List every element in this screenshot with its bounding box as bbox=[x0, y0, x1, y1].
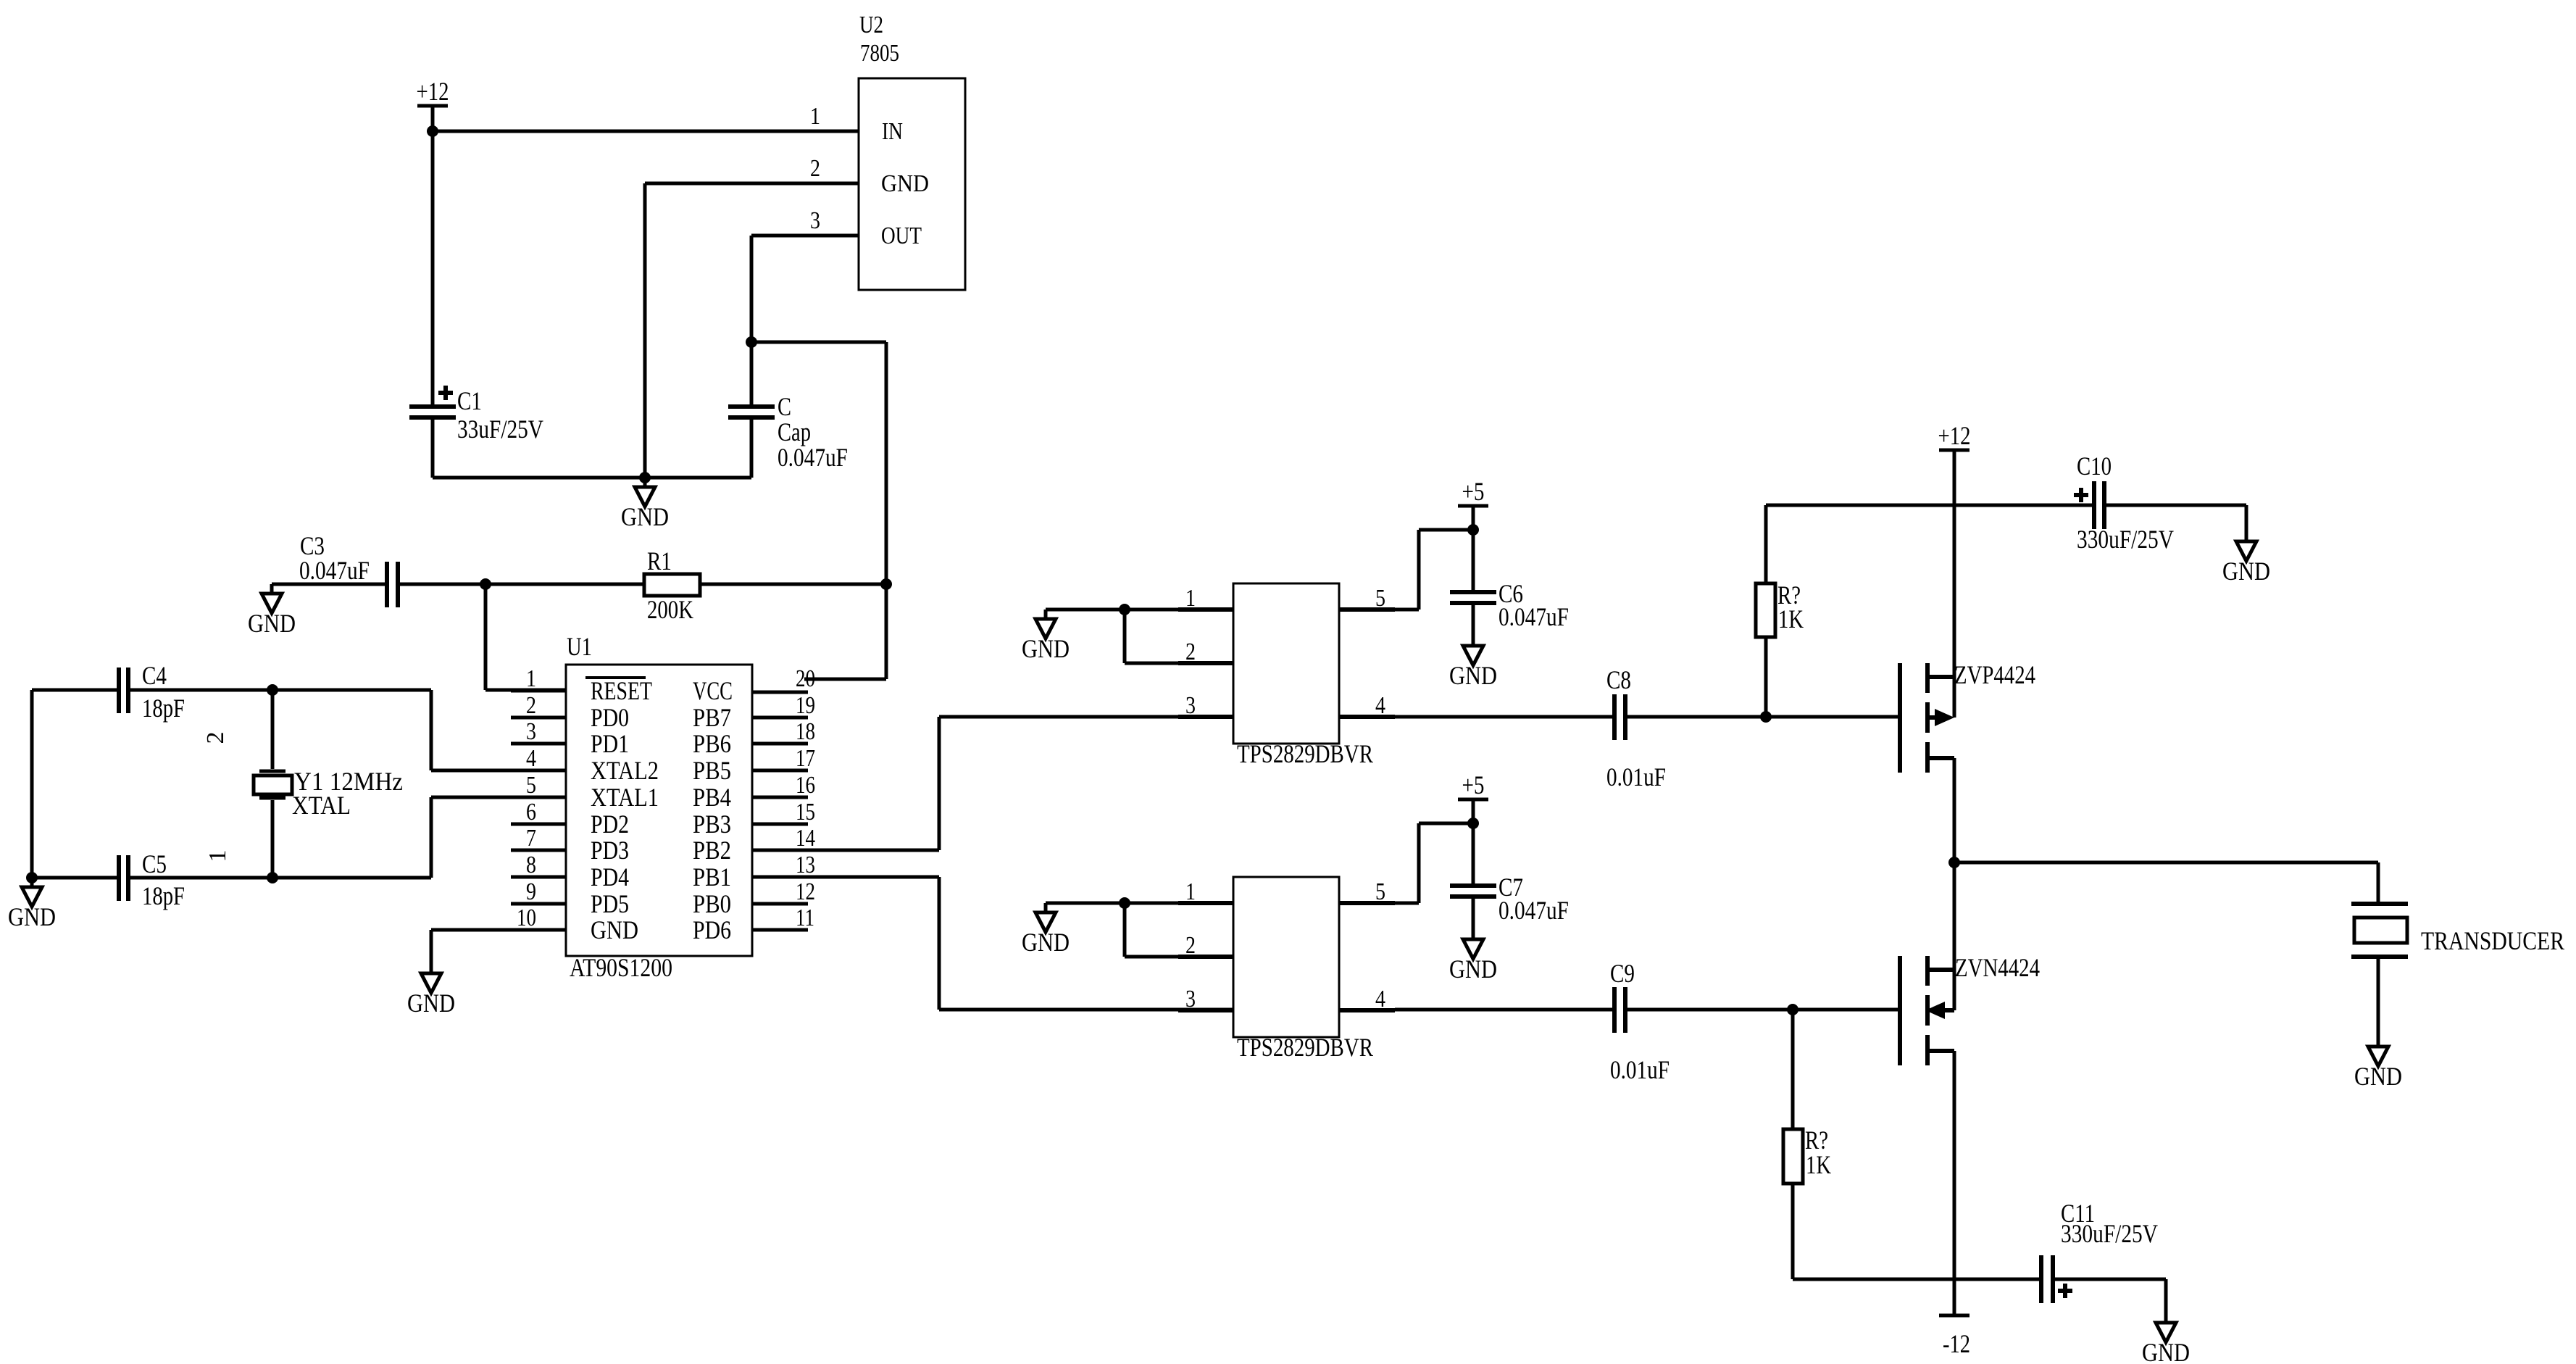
capacitor C bbox=[728, 407, 775, 417]
value 0.01uF bbox=[1610, 1055, 1670, 1084]
value 330uF/25V bbox=[2077, 525, 2174, 554]
pin 4 stub of U1 bbox=[511, 769, 566, 773]
svg-text:2: 2 bbox=[810, 155, 820, 182]
wire bbox=[431, 106, 435, 131]
svg-text:2: 2 bbox=[1185, 639, 1196, 665]
ground symbol C6 bbox=[1449, 636, 1497, 690]
svg-text:+5: +5 bbox=[1462, 477, 1485, 506]
svg-text:18pF: 18pF bbox=[142, 881, 185, 910]
svg-text:RESET: RESET bbox=[591, 676, 652, 705]
svg-text:+12: +12 bbox=[417, 77, 449, 106]
svg-text:ZVN4424: ZVN4424 bbox=[1955, 953, 2040, 982]
pin 19 stub of U1 bbox=[752, 716, 808, 720]
ground symbol C7 bbox=[1449, 930, 1497, 984]
svg-text:GND: GND bbox=[1022, 634, 1070, 663]
pin number 4 bbox=[526, 745, 536, 772]
svg-text:GND: GND bbox=[2354, 1062, 2402, 1091]
transistor Q2 drain conn bbox=[1927, 968, 1954, 972]
pin number 2 bbox=[526, 692, 536, 719]
pin number 2 of Y1 bbox=[202, 732, 229, 744]
wire bbox=[433, 130, 859, 133]
pin 2 stub bbox=[1178, 661, 1233, 665]
svg-text:14: 14 bbox=[796, 825, 815, 852]
pin name PD1 bbox=[591, 729, 629, 758]
transistor Q1 source conn bbox=[1927, 675, 1954, 679]
pin 1 stub of U1 bbox=[511, 689, 566, 693]
svg-text:9: 9 bbox=[526, 878, 536, 905]
svg-text:0.047uF: 0.047uF bbox=[299, 556, 370, 585]
svg-text:5: 5 bbox=[526, 772, 536, 799]
wire bbox=[272, 583, 385, 586]
pin number 5 bbox=[1375, 878, 1385, 905]
capacitor C5 bbox=[119, 855, 128, 901]
resistor R1 bbox=[644, 574, 700, 596]
pin number 5 bbox=[526, 772, 536, 799]
svg-text:18pF: 18pF bbox=[142, 694, 185, 723]
pin name IN bbox=[882, 118, 903, 145]
wire bbox=[1954, 862, 2378, 902]
driver U3 box bbox=[1233, 583, 1339, 744]
svg-text:4: 4 bbox=[1375, 986, 1385, 1012]
pin 11 stub of U1 bbox=[752, 928, 808, 932]
pin name PB2 bbox=[693, 836, 731, 865]
mcu U1 box bbox=[566, 665, 752, 956]
svg-text:3: 3 bbox=[810, 207, 820, 234]
svg-text:2: 2 bbox=[202, 732, 229, 744]
pin name PD5 bbox=[591, 889, 629, 918]
svg-text:16: 16 bbox=[796, 772, 815, 799]
svg-text:VCC: VCC bbox=[693, 676, 733, 705]
pin name GND bbox=[591, 915, 638, 944]
pin number 1 bbox=[1185, 878, 1196, 905]
pin name PB1 bbox=[693, 862, 731, 891]
svg-text:+5: +5 bbox=[1462, 770, 1485, 799]
svg-text:33uF/25V: 33uF/25V bbox=[457, 415, 543, 444]
svg-text:7: 7 bbox=[526, 825, 536, 852]
transistor Q1 drain conn bbox=[1927, 756, 1954, 760]
wire bbox=[1627, 715, 1898, 719]
svg-text:7805: 7805 bbox=[860, 40, 899, 67]
wire bbox=[32, 689, 117, 692]
pin name VCC bbox=[693, 676, 733, 705]
svg-text:PD1: PD1 bbox=[591, 729, 629, 758]
pin 7 stub of U1 bbox=[511, 849, 566, 852]
label TPS2829DBVR bbox=[1237, 1033, 1373, 1062]
wire bbox=[750, 342, 754, 404]
svg-text:2: 2 bbox=[526, 692, 536, 719]
svg-text:GND: GND bbox=[407, 989, 455, 1018]
wire bbox=[1766, 504, 2092, 507]
pin 15 stub of U1 bbox=[752, 823, 808, 826]
pin 17 stub of U1 bbox=[752, 769, 808, 773]
svg-text:GND: GND bbox=[591, 915, 638, 944]
svg-text:5: 5 bbox=[1375, 585, 1385, 612]
wire bbox=[1953, 1051, 1956, 1315]
svg-text:0.047uF: 0.047uF bbox=[778, 443, 848, 472]
svg-text:C5: C5 bbox=[142, 849, 167, 878]
wire bbox=[751, 342, 886, 584]
label C8 bbox=[1606, 665, 1631, 694]
transistor Q1 channel bbox=[1925, 663, 1930, 773]
ground symbol crystal bbox=[8, 878, 56, 931]
svg-text:GND: GND bbox=[8, 902, 56, 931]
pin 5 stub bbox=[1339, 901, 1395, 905]
svg-text:PB6: PB6 bbox=[693, 729, 731, 758]
power +12 rail B bbox=[1938, 421, 1971, 450]
pin 18 stub of U1 bbox=[752, 742, 808, 746]
svg-text:GND: GND bbox=[621, 502, 669, 531]
pin number 1 of Y1 bbox=[204, 850, 231, 862]
pin name OUT bbox=[881, 223, 922, 249]
capacitor C9 bbox=[1614, 987, 1625, 1033]
wire bbox=[751, 236, 859, 342]
svg-text:1: 1 bbox=[1185, 878, 1196, 905]
label R? bbox=[1805, 1126, 1828, 1155]
wire bbox=[1953, 862, 1956, 1010]
power +5 rail A bbox=[1458, 477, 1488, 506]
wire bbox=[431, 930, 511, 964]
svg-text:AT90S1200: AT90S1200 bbox=[570, 953, 672, 982]
ground symbol transducer bbox=[2354, 1037, 2402, 1091]
svg-text:0.01uF: 0.01uF bbox=[1610, 1055, 1670, 1084]
pin number 1 bbox=[526, 665, 536, 692]
wire bbox=[2055, 1279, 2166, 1313]
pin name XTAL1 bbox=[591, 783, 659, 812]
svg-text:U2: U2 bbox=[859, 12, 883, 38]
pin 5 stub of U1 bbox=[511, 796, 566, 799]
value 330uF/25V bbox=[2061, 1219, 2158, 1248]
transistor Q1 body arrow bbox=[1927, 709, 1954, 726]
svg-text:1: 1 bbox=[526, 665, 536, 692]
pin number 2 of U2 bbox=[810, 155, 820, 182]
svg-text:C4: C4 bbox=[142, 661, 167, 690]
junction crystal top bbox=[267, 684, 278, 696]
pin 1 stub bbox=[1178, 607, 1233, 612]
transducer bbox=[2351, 904, 2408, 957]
svg-text:3: 3 bbox=[1185, 692, 1196, 719]
value 0.01uF bbox=[1606, 762, 1666, 791]
svg-text:TPS2829DBVR: TPS2829DBVR bbox=[1237, 1033, 1373, 1062]
pin name RESET bbox=[591, 676, 652, 705]
wire bbox=[272, 797, 511, 878]
power +12 rail A bbox=[417, 77, 449, 106]
svg-text:PD4: PD4 bbox=[591, 862, 629, 891]
label U2 bbox=[859, 12, 883, 38]
pin number 3 bbox=[1185, 692, 1196, 719]
svg-text:PD2: PD2 bbox=[591, 810, 629, 839]
pin 4 stub bbox=[1339, 715, 1395, 719]
capacitor C3 bbox=[387, 562, 398, 607]
value 33uF/25V bbox=[457, 415, 543, 444]
svg-text:0.047uF: 0.047uF bbox=[1499, 896, 1569, 925]
pin number 4 bbox=[1375, 986, 1385, 1012]
transistor Q2 ZVN4424 gate bar bbox=[1898, 956, 1902, 1065]
svg-text:330uF/25V: 330uF/25V bbox=[2061, 1219, 2158, 1248]
pin number 15 bbox=[796, 799, 815, 826]
capacitor C10 bbox=[2094, 481, 2104, 529]
svg-text:1: 1 bbox=[204, 850, 231, 862]
driver U4 box bbox=[1233, 877, 1339, 1037]
pin name PD6 bbox=[693, 915, 731, 944]
pin name PB6 bbox=[693, 729, 731, 758]
label ZVN4424 bbox=[1955, 953, 2040, 982]
svg-text:OUT: OUT bbox=[881, 223, 922, 249]
junction +5/C7 bbox=[1467, 818, 1479, 829]
RESET overline bbox=[585, 676, 646, 679]
junction R1/VCC bbox=[880, 578, 892, 590]
junction +12/C1 bbox=[427, 125, 438, 137]
capacitor C8 bbox=[1614, 694, 1625, 740]
svg-text:R1: R1 bbox=[647, 546, 672, 575]
wire bbox=[1472, 899, 1475, 930]
wire bbox=[804, 584, 886, 679]
resistor R? upper bbox=[1756, 583, 1775, 637]
wire bbox=[431, 131, 435, 404]
svg-text:U1: U1 bbox=[567, 632, 592, 661]
wire bbox=[130, 876, 272, 880]
label C4 bbox=[142, 661, 167, 690]
svg-text:4: 4 bbox=[526, 745, 536, 772]
value 0.047uF bbox=[1499, 602, 1569, 631]
junction crystal bottom bbox=[267, 872, 278, 883]
wire bbox=[1125, 903, 1178, 957]
label C7 bbox=[1499, 873, 1523, 902]
capacitor C4 bbox=[119, 668, 128, 713]
label C5 bbox=[142, 849, 167, 878]
wire bbox=[30, 690, 34, 878]
pin number 6 bbox=[526, 799, 536, 826]
wire bbox=[1791, 1184, 1795, 1279]
svg-text:17: 17 bbox=[796, 745, 815, 772]
wire bbox=[1472, 799, 1475, 823]
svg-text:GND: GND bbox=[1022, 928, 1070, 957]
junction pin1/pin2 bbox=[1119, 604, 1130, 615]
svg-text:C: C bbox=[778, 392, 791, 421]
svg-text:18: 18 bbox=[796, 718, 815, 745]
wire bbox=[485, 583, 644, 586]
label R? bbox=[1777, 581, 1801, 610]
ground symbol C3 bbox=[248, 584, 296, 638]
pin number 10 bbox=[517, 905, 536, 931]
pin number 5 bbox=[1375, 585, 1385, 612]
wire bbox=[130, 689, 272, 692]
wire bbox=[32, 876, 117, 880]
pin 10 stub of U1 bbox=[511, 928, 566, 932]
svg-text:PB2: PB2 bbox=[693, 836, 731, 865]
label Y1 12MHz bbox=[294, 767, 403, 796]
wire bbox=[431, 420, 435, 478]
pin 1 stub bbox=[1178, 901, 1233, 905]
wire bbox=[1764, 637, 1768, 717]
pin 12 stub of U1 bbox=[752, 902, 808, 906]
svg-text:GND: GND bbox=[881, 170, 929, 197]
label C6 bbox=[1499, 579, 1523, 608]
svg-text:GND: GND bbox=[1449, 955, 1497, 984]
transistor Q2 source conn bbox=[1927, 1049, 1954, 1053]
capacitor C7 bbox=[1450, 886, 1496, 897]
pin 16 stub of U1 bbox=[752, 796, 808, 799]
wire PB2 to driver 1 bbox=[752, 717, 1233, 850]
pin number 7 bbox=[526, 825, 536, 852]
pin 3 stub of U1 bbox=[511, 742, 566, 746]
pin number 3 bbox=[526, 718, 536, 745]
junction +5/C6 bbox=[1467, 524, 1479, 536]
pin 6 stub of U1 bbox=[511, 823, 566, 826]
svg-text:19: 19 bbox=[796, 692, 815, 719]
svg-text:XTAL2: XTAL2 bbox=[591, 756, 659, 785]
wire bbox=[1395, 530, 1473, 610]
pin name PB5 bbox=[693, 756, 731, 785]
label C3 bbox=[300, 531, 325, 560]
ground symbol U1 bbox=[407, 964, 455, 1018]
svg-text:1: 1 bbox=[810, 103, 820, 130]
pin name XTAL2 bbox=[591, 756, 659, 785]
svg-text:15: 15 bbox=[796, 799, 815, 826]
value 0.047uF bbox=[778, 443, 848, 472]
pin number 11 bbox=[796, 905, 814, 931]
junction C9/R bbox=[1787, 1004, 1798, 1015]
wire bbox=[700, 583, 886, 586]
svg-text:11: 11 bbox=[796, 905, 814, 931]
wire bbox=[645, 183, 859, 478]
svg-text:GND: GND bbox=[1449, 661, 1497, 690]
pin 2 stub of U1 bbox=[511, 716, 566, 720]
svg-text:PB3: PB3 bbox=[693, 810, 731, 839]
svg-text:PD6: PD6 bbox=[693, 915, 731, 944]
label TRANSDUCER bbox=[2421, 926, 2564, 955]
pin number 19 bbox=[796, 692, 815, 719]
svg-text:PB4: PB4 bbox=[693, 783, 731, 812]
transistor Q2 body arrow bbox=[1925, 1002, 1954, 1019]
resistor R? lower bbox=[1783, 1129, 1803, 1184]
label AT90S1200 bbox=[570, 953, 672, 982]
svg-text:8: 8 bbox=[526, 852, 536, 878]
svg-text:C10: C10 bbox=[2077, 452, 2112, 481]
svg-text:6: 6 bbox=[526, 799, 536, 826]
wire bbox=[400, 583, 485, 586]
pin number 2 bbox=[1185, 639, 1196, 665]
label Cap bbox=[778, 417, 811, 446]
power +5 rail B bbox=[1458, 770, 1488, 799]
value 1K bbox=[1778, 604, 1804, 633]
svg-text:PD3: PD3 bbox=[591, 836, 629, 865]
svg-text:10: 10 bbox=[517, 905, 536, 931]
pin number 8 bbox=[526, 852, 536, 878]
svg-text:PB0: PB0 bbox=[693, 889, 731, 918]
svg-text:330uF/25V: 330uF/25V bbox=[2077, 525, 2174, 554]
junction C8/R bbox=[1760, 711, 1772, 723]
pin name PB3 bbox=[693, 810, 731, 839]
label 7805 bbox=[860, 40, 899, 67]
pin number 12 bbox=[796, 878, 815, 905]
svg-text:XTAL1: XTAL1 bbox=[591, 783, 659, 812]
wire bbox=[1395, 823, 1473, 903]
pin 20 stub of U1 bbox=[752, 691, 808, 694]
pin number 1 bbox=[1185, 585, 1196, 612]
svg-text:12: 12 bbox=[796, 878, 815, 905]
capacitor C11 plus sign bbox=[2058, 1284, 2072, 1298]
value 18pF bbox=[142, 881, 185, 910]
svg-text:ZVP4424: ZVP4424 bbox=[1954, 660, 2035, 689]
pin name PB0 bbox=[693, 889, 731, 918]
wire bbox=[1395, 1008, 1612, 1012]
wire bbox=[750, 420, 754, 478]
value 0.047uF bbox=[1499, 896, 1569, 925]
svg-text:PB5: PB5 bbox=[693, 756, 731, 785]
svg-text:0.047uF: 0.047uF bbox=[1499, 602, 1569, 631]
svg-text:PB7: PB7 bbox=[693, 703, 731, 732]
label XTAL bbox=[292, 791, 351, 820]
pin 13 stub of U1 bbox=[752, 876, 808, 879]
label C1 bbox=[457, 386, 482, 415]
junction C3/R1/RESET bbox=[480, 578, 491, 590]
svg-text:2: 2 bbox=[1185, 932, 1196, 959]
wire bbox=[1793, 1278, 2039, 1281]
wire bbox=[1627, 1008, 1898, 1012]
capacitor C6 bbox=[1450, 592, 1496, 603]
regulator U2 box bbox=[859, 78, 965, 290]
ground symbol C11 bbox=[2142, 1313, 2190, 1364]
label C11 bbox=[2061, 1199, 2095, 1228]
wire bbox=[1953, 758, 1956, 862]
svg-text:3: 3 bbox=[1185, 986, 1196, 1012]
wire bbox=[1791, 1010, 1795, 1129]
pin 5 stub bbox=[1339, 607, 1395, 612]
value 200K bbox=[647, 595, 693, 624]
capacitor C1 bbox=[409, 386, 456, 417]
svg-text:13: 13 bbox=[796, 852, 815, 878]
svg-text:PD0: PD0 bbox=[591, 703, 629, 732]
svg-text:IN: IN bbox=[882, 118, 903, 145]
pin number 3 of U2 bbox=[810, 207, 820, 234]
pin 9 stub of U1 bbox=[511, 902, 566, 906]
crystal Y1 bbox=[254, 690, 292, 878]
ground symbol U2 area bbox=[621, 478, 669, 531]
capacitor C11 bbox=[2041, 1255, 2053, 1303]
value 0.047uF bbox=[299, 556, 370, 585]
label C10 bbox=[2077, 452, 2112, 481]
wire bbox=[1472, 823, 1475, 883]
junction output node bbox=[1948, 857, 1960, 868]
pin 8 stub of U1 bbox=[511, 876, 566, 879]
transistor Q2 channel bbox=[1925, 956, 1930, 1065]
label TPS2829DBVR bbox=[1237, 739, 1373, 768]
pin number 16 bbox=[796, 772, 815, 799]
svg-text:200K: 200K bbox=[647, 595, 693, 624]
junction ground node A bbox=[639, 472, 651, 483]
pin name PB7 bbox=[693, 703, 731, 732]
pin name PD0 bbox=[591, 703, 629, 732]
pin number 20 bbox=[796, 665, 815, 692]
wire bbox=[1046, 902, 1178, 905]
svg-text:Cap: Cap bbox=[778, 417, 811, 446]
svg-text:1K: 1K bbox=[1778, 604, 1804, 633]
pin name PB4 bbox=[693, 783, 731, 812]
svg-text:PB1: PB1 bbox=[693, 862, 731, 891]
svg-text:20: 20 bbox=[796, 665, 815, 692]
svg-text:3: 3 bbox=[526, 718, 536, 745]
svg-text:TRANSDUCER: TRANSDUCER bbox=[2421, 926, 2564, 955]
pin name PD2 bbox=[591, 810, 629, 839]
pin number 17 bbox=[796, 745, 815, 772]
pin number 1 of U2 bbox=[810, 103, 820, 130]
svg-text:0.01uF: 0.01uF bbox=[1606, 762, 1666, 791]
wire bbox=[1125, 610, 1178, 663]
capacitor C10 plus sign bbox=[2074, 488, 2088, 502]
pin 3 stub bbox=[1178, 1008, 1233, 1012]
svg-text:GND: GND bbox=[248, 609, 296, 638]
svg-text:4: 4 bbox=[1375, 692, 1385, 719]
